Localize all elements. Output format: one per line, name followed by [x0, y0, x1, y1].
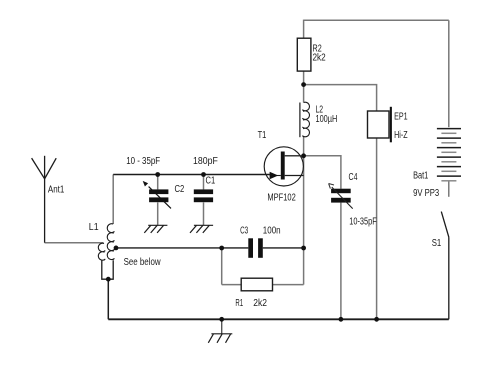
- wire C3 right plate to source node: [263, 247, 304, 249]
- svg-text:180pF: 180pF: [193, 156, 218, 167]
- wire antenna feed horizontal: [45, 242, 104, 244]
- wire S1 bottom lead to rail: [448, 237, 450, 319]
- node C2/tank: [155, 172, 160, 177]
- svg-text:Bat1: Bat1: [413, 171, 428, 182]
- svg-text:See below: See below: [124, 257, 162, 268]
- wire EP1 bottom lead to rail: [376, 138, 378, 319]
- inductor L1 (antenna winding): [98, 243, 105, 260]
- wire C3 left node down: [221, 248, 223, 285]
- svg-text:Ant1: Ant1: [48, 185, 64, 196]
- earphone EP1: [368, 111, 390, 138]
- variable capacitor C2: [149, 189, 168, 194]
- node drain/L2: [301, 153, 306, 158]
- svg-text:2k2: 2k2: [253, 298, 267, 309]
- ground at bottom rail: [221, 319, 223, 334]
- wire C4 bottom lead to rail: [340, 203, 342, 320]
- wire R2 top lead: [303, 20, 305, 39]
- svg-text:10 - 35pF: 10 - 35pF: [126, 156, 160, 167]
- node C1/tank: [201, 172, 206, 177]
- node C3/R1 right source: [301, 246, 306, 251]
- battery Bat1 9V PP3: [437, 129, 461, 181]
- wire right feed to battery: [448, 20, 450, 127]
- wire C1 bottom stub to ground: [203, 202, 205, 225]
- svg-text:R1: R1: [235, 298, 243, 309]
- transistor T1 MPF102: [264, 147, 303, 186]
- svg-text:10-35pF: 10-35pF: [349, 217, 376, 228]
- wire battery bottom lead to switch: [448, 181, 450, 197]
- wire top rail V+: [304, 19, 449, 21]
- svg-text:100n: 100n: [263, 226, 281, 237]
- node L1 bottom: [106, 277, 111, 282]
- svg-text:C3: C3: [240, 226, 248, 237]
- wire C2 bottom stub to ground: [157, 202, 159, 225]
- svg-text:2k2: 2k2: [313, 53, 326, 64]
- node rail C4: [339, 317, 344, 322]
- node rail EP1: [374, 317, 379, 322]
- wire L1 tap to C3 left plate: [116, 247, 248, 249]
- svg-text:100µH: 100µH: [316, 114, 338, 125]
- resistor R2 2k2: [297, 38, 311, 71]
- wire R1 right lead: [273, 284, 304, 286]
- wire tank row / gate line: [113, 174, 270, 176]
- svg-text:9V PP3: 9V PP3: [413, 188, 439, 199]
- svg-text:C4: C4: [349, 172, 358, 183]
- wire C1 top stub: [203, 175, 205, 190]
- wire L1 winding bottoms join: [102, 260, 113, 279]
- svg-text:Hi-Z: Hi-Z: [394, 130, 408, 141]
- wire L1 bottom riser to rail: [107, 279, 109, 319]
- svg-text:L1: L1: [89, 222, 99, 233]
- inductor L1 (tank winding with tap): [107, 224, 114, 260]
- wire drain to C4 top: [300, 156, 341, 189]
- svg-text:MPF102: MPF102: [267, 192, 295, 203]
- svg-text:S1: S1: [432, 238, 442, 249]
- antenna Ant1: [32, 156, 57, 243]
- node L1 tap: [114, 246, 119, 251]
- ground under C2: [144, 225, 167, 233]
- wire C3 right node down to R1: [303, 248, 305, 285]
- resistor R1 2k2: [241, 278, 272, 291]
- wire tank top down to L1: [112, 175, 114, 225]
- wire L2 bottom through drain node down to source node: [303, 137, 305, 248]
- svg-text:C2: C2: [175, 184, 185, 195]
- inductor L2 100uH: [299, 103, 301, 138]
- wire C2 top stub: [157, 175, 159, 190]
- svg-text:C1: C1: [206, 176, 216, 187]
- svg-text:EP1: EP1: [394, 112, 408, 123]
- variable capacitor C4: [331, 189, 351, 194]
- ground under C1: [190, 225, 213, 233]
- capacitor C1 180pF: [194, 189, 213, 194]
- switch S1: [441, 212, 449, 238]
- node R2/L2/EP1: [301, 82, 306, 87]
- wire R2 bottom lead to L2: [303, 71, 305, 102]
- node C3/R1 left: [219, 246, 224, 251]
- wire bottom rail ground/negative: [108, 318, 449, 320]
- svg-text:T1: T1: [258, 130, 267, 141]
- wire R2 node to EP1 top: [304, 85, 377, 111]
- node rail ground: [219, 317, 224, 322]
- wire R1 left lead: [222, 284, 242, 286]
- capacitor C3 100n: [248, 238, 253, 257]
